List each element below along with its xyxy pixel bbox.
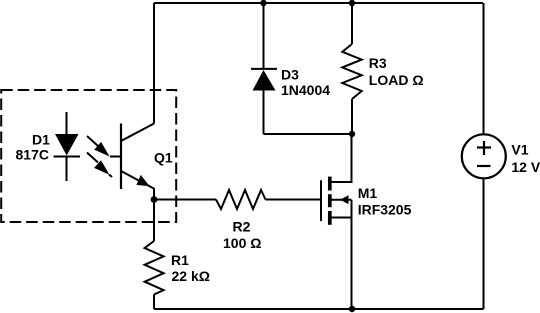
svg-text:D1: D1 <box>32 132 50 148</box>
svg-text:D3: D3 <box>281 66 299 82</box>
wire D3 top drop <box>263 3 265 68</box>
wire MOSFET source to bottom rail <box>330 218 352 310</box>
wire emitter node to R2 <box>154 199 216 201</box>
svg-text:817C: 817C <box>16 147 49 163</box>
node emitter junction <box>151 196 158 203</box>
svg-text:V1: V1 <box>511 141 528 157</box>
node top D3 junction <box>260 0 266 6</box>
channel segment source <box>328 211 332 225</box>
node top R3 junction <box>349 0 355 6</box>
wire D3 bottom to drain node <box>264 133 352 135</box>
light arrow 1 <box>87 136 120 157</box>
wire right vertical (top rail to V1) <box>483 3 485 135</box>
svg-text:LOAD Ω: LOAD Ω <box>369 72 424 88</box>
svg-text:IRF3205: IRF3205 <box>358 202 412 218</box>
svg-text:M1: M1 <box>358 185 378 201</box>
optocoupler outline (dashed box) <box>1 90 176 222</box>
diode D3 (flyback) <box>251 69 277 91</box>
wire R3 top drop <box>351 3 353 44</box>
wire drain node to MOSFET <box>330 134 352 182</box>
resistor R1 <box>145 241 164 295</box>
voltage source V1 <box>462 134 506 178</box>
svg-text:R2: R2 <box>233 218 251 234</box>
resistor R2 <box>216 190 266 209</box>
transistor Q1 (phototransistor) <box>121 124 154 201</box>
wire R1 bottom to bottom rail <box>153 295 155 310</box>
wire emitter node to R1 <box>153 200 155 242</box>
wire V1 to bottom rail <box>483 178 485 309</box>
svg-text:1N4004: 1N4004 <box>281 82 330 98</box>
svg-text:R3: R3 <box>369 55 387 71</box>
node drain junction <box>349 131 355 137</box>
channel segment body <box>328 194 332 207</box>
node source bottom junction <box>349 306 355 312</box>
diode D1 (LED) <box>54 112 81 181</box>
svg-text:R1: R1 <box>171 252 189 268</box>
wire R3 bottom to drain node <box>351 99 353 134</box>
svg-text:22 kΩ: 22 kΩ <box>172 268 210 284</box>
resistor R3 <box>342 44 361 99</box>
gate bar <box>320 180 322 221</box>
wire D3 anode drop <box>263 90 265 134</box>
svg-text:100 Ω: 100 Ω <box>223 235 261 251</box>
svg-text:Q1: Q1 <box>154 149 173 165</box>
light arrow 2 <box>87 153 112 178</box>
wire gate from R2 <box>266 199 321 201</box>
svg-text:12 V: 12 V <box>511 159 540 175</box>
MOSFET M1 <box>321 177 352 225</box>
wire bottom rail <box>154 308 484 310</box>
wire top rail <box>154 2 483 4</box>
channel segment drain <box>328 177 332 191</box>
body line with arrow <box>331 199 352 201</box>
wire left vertical (top rail to Q1 collector) <box>153 3 155 124</box>
